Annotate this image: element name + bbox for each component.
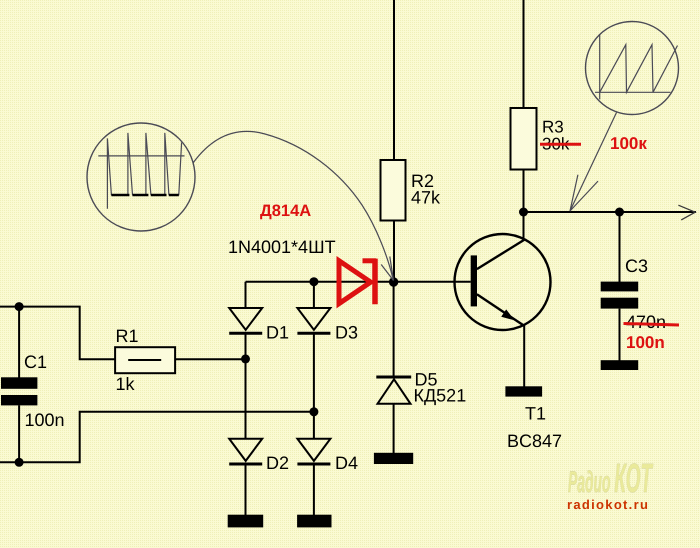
- zener diode D814A red triangle: [339, 261, 371, 304]
- node lower bus at D3/D4: [309, 407, 318, 416]
- scope bubble 2 left vertical: [599, 34, 601, 99]
- transistor T1 circle: [455, 234, 551, 330]
- svg-text:100к: 100к: [610, 134, 647, 153]
- diode D5 cathode bar: [376, 376, 411, 379]
- pointer line from bubble 2: [570, 113, 617, 212]
- svg-text:D3: D3: [335, 323, 358, 343]
- svg-text:1N4001*4ШТ: 1N4001*4ШТ: [228, 237, 336, 257]
- resistor R3: [511, 108, 537, 170]
- svg-text:BC847: BC847: [507, 431, 562, 451]
- diode D4 cathode bar: [297, 463, 330, 466]
- ground C3: [601, 360, 639, 370]
- resistor R1 inner line: [128, 359, 161, 361]
- wire: collector: [523, 212, 525, 240]
- wire: D3 to D4: [313, 335, 315, 439]
- wire: top-left bus from D1: [245, 282, 247, 308]
- wire: left stub top: [0, 306, 19, 308]
- svg-text:R1: R1: [116, 326, 139, 346]
- svg-text:47k: 47k: [411, 188, 441, 208]
- svg-text:КД521: КД521: [414, 386, 467, 406]
- ground D2: [228, 515, 264, 528]
- resistor R1: [115, 347, 175, 373]
- svg-text:radiokot.ru: radiokot.ru: [567, 497, 649, 512]
- node at C3: [615, 208, 624, 217]
- wire: R2 bottom to node: [393, 221, 395, 283]
- node D3 top: [309, 277, 318, 286]
- scope bubble 2 circle: [586, 22, 679, 115]
- wire: D1 to D2: [245, 335, 247, 439]
- diode D1 cathode bar: [229, 332, 262, 335]
- svg-text:D4: D4: [335, 453, 358, 473]
- ground D4: [297, 515, 331, 528]
- transistor T1 base bar: [471, 255, 477, 306]
- scope bubble 1 circle: [87, 123, 195, 231]
- wire: output horizontal: [524, 211, 697, 213]
- diode D3 cathode bar: [297, 332, 330, 335]
- wire: C3 to ground: [619, 309, 621, 361]
- wire: D4 to ground: [313, 466, 315, 516]
- wire: C1 vertical: [18, 307, 20, 378]
- capacitor C1: [1, 377, 37, 389]
- node zener/base/D5: [389, 277, 398, 286]
- scope bubble 2 baseline: [595, 91, 671, 93]
- diode D4 triangle: [297, 439, 330, 461]
- svg-text:C3: C3: [625, 256, 648, 276]
- wire: emitter to ground: [523, 326, 525, 387]
- svg-text:100n: 100n: [626, 333, 665, 352]
- wire: R1 out: [175, 358, 245, 360]
- svg-text:470n: 470n: [626, 312, 666, 332]
- pointer 2 arrowhead barbs: [570, 175, 578, 211]
- wire: C3 vertical: [619, 212, 621, 282]
- diode D2 triangle: [229, 439, 262, 461]
- transistor T1 collector stroke: [477, 239, 525, 269]
- wire: lower bus: [19, 412, 314, 463]
- wire: D5 to ground: [393, 404, 395, 453]
- wire: D5 vertical: [393, 282, 395, 376]
- zener diode D814A red cathode bar: [372, 259, 378, 305]
- diode D3 triangle: [297, 308, 330, 330]
- wire: base horizontal bus: [246, 281, 471, 283]
- transistor T1 emitter stroke: [477, 294, 525, 326]
- output arrow: [678, 205, 695, 220]
- capacitor C3: [601, 282, 639, 292]
- node C1 top: [15, 302, 24, 311]
- scope bubble 1 baseline: [98, 155, 184, 157]
- node at R3/collector: [519, 208, 528, 217]
- svg-text:C1: C1: [24, 352, 47, 372]
- wire: D3 vertical: [313, 282, 315, 308]
- scope bubble 1 thick bottoms: [111, 194, 178, 197]
- scope bubble 1 pulse waveform: [107, 133, 181, 209]
- diode D2 cathode bar: [229, 463, 262, 466]
- svg-text:100n: 100n: [25, 410, 65, 430]
- svg-text:D2: D2: [266, 453, 289, 473]
- ground D5: [374, 453, 413, 464]
- wire: R2 top vertical: [393, 0, 395, 160]
- scope bubble 2 sawtooth: [600, 45, 678, 93]
- svg-text:D1: D1: [266, 323, 289, 343]
- pointer curve arrowhead barbs: [390, 257, 394, 281]
- diode D1 triangle: [229, 308, 262, 330]
- wire: left stub bottom: [0, 461, 19, 463]
- transistor T1 emitter arrow: [501, 309, 514, 320]
- node C1 bottom: [15, 458, 24, 467]
- pointer curve from bubble 1 to zener node: [193, 131, 393, 277]
- zener diode D814A hook: [363, 258, 377, 263]
- wire: D2 to ground: [245, 466, 247, 516]
- wire: C1 bottom: [18, 405, 20, 462]
- ground T1: [505, 386, 542, 396]
- resistor R2: [381, 160, 406, 221]
- svg-text:Д814А: Д814А: [260, 202, 311, 220]
- svg-text:1k: 1k: [116, 374, 136, 394]
- node R1 out: [241, 354, 250, 363]
- diode D5 triangle: [378, 379, 411, 404]
- wire: C1 top loop to R1: [19, 307, 115, 360]
- wire: R3 bottom to node: [523, 170, 525, 213]
- svg-text:T1: T1: [525, 404, 546, 424]
- wire: R3 top vertical: [523, 0, 525, 108]
